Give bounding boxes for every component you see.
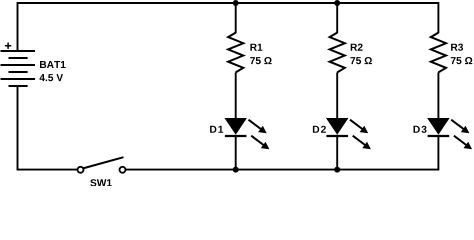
diode D2 cathode bar [326,135,348,137]
diode D3 cathode bar [428,135,450,137]
resistor R1 75 Ohm [228,33,272,73]
resistor name label R2 [351,44,363,51]
wire: branch 1 vertical segments (node to R1, R1 to D1, D1 to bottom rail) [235,3,237,170]
diode D2 anode triangle [327,119,348,134]
battery value label 4.5 V [40,74,64,81]
LED D2 [313,119,371,150]
switch lever arm [83,157,124,168]
diode D1 cathode bar [225,135,247,137]
resistor name label R3 [451,44,463,51]
battery positive terminal + sign [5,43,11,49]
diode name label D1 [210,126,223,133]
switch name label SW1 [90,179,112,186]
switch left contact [78,167,84,173]
diode D1 anode triangle [225,119,246,134]
diode name label D3 [414,126,427,133]
node: junction dot top of branch 2 [334,0,340,6]
LED D1 [210,119,269,150]
diode D3 anode triangle [428,119,449,134]
battery name label BAT1 [40,61,66,68]
resistor name label R1 [250,44,262,51]
resistor value label 75 ohm [350,57,372,64]
switch SW1 [78,157,126,186]
node: junction dot top of branch 1 [233,0,239,6]
wire: bottom rail from switch right contact to right branch, up to D3 cathode [125,137,438,170]
wire: branch 3 middle vertical segment (R3 to D3) [437,72,439,118]
resistor R3 75 Ohm [431,33,473,73]
wire: branch 2 vertical segments (node to R2, R2 to D2, D2 to bottom rail) [336,3,338,170]
wire: top rail from battery + terminal across to right branch, down to R3 top [18,3,439,51]
node: junction dot bottom of branch 2 [334,167,340,173]
resistor value label 75 ohm [250,57,272,64]
battery BAT1 4.5 V [1,43,66,87]
LED D2 light emission arrows [350,120,363,130]
resistor value label 75 ohm [451,57,473,64]
LED D1 light emission arrows [249,120,262,130]
switch right contact [120,167,126,173]
resistor R2 75 Ohm [330,33,372,73]
LED D3 light emission arrows [451,120,464,130]
node: junction dot bottom of branch 1 [233,167,239,173]
wire: battery - terminal down to bottom rail, right to switch SW1 left contact [18,86,78,170]
LED D3 [414,119,473,150]
diode name label D2 [313,126,326,133]
